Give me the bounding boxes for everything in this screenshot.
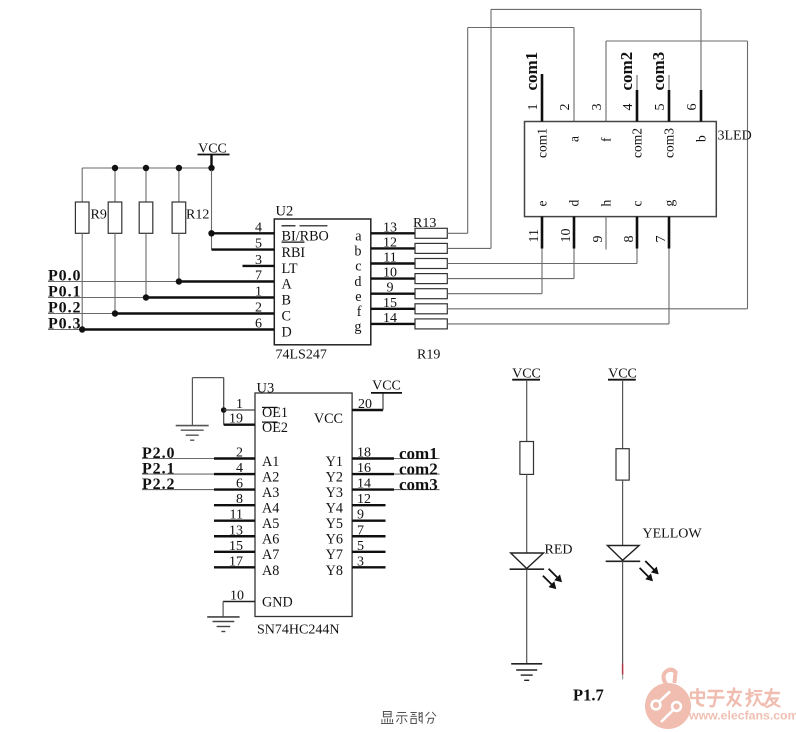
wire U3 pin 12 <box>352 504 385 506</box>
svg-text:B: B <box>282 293 291 309</box>
svg-text:17: 17 <box>229 554 243 569</box>
svg-text:6: 6 <box>236 477 243 492</box>
wire <box>447 232 467 234</box>
svg-text:P2.2: P2.2 <box>142 476 175 493</box>
wire U3 pin 11 <box>214 520 255 522</box>
wire U3 pin 4 <box>214 473 255 475</box>
wire U2 pin 12 <box>371 247 415 249</box>
wire <box>48 281 179 283</box>
wire <box>114 233 116 313</box>
svg-text:GND: GND <box>262 594 293 610</box>
wire <box>222 602 224 617</box>
wire U3 pin 8 <box>214 504 255 506</box>
wire U3 pin 17 <box>214 566 255 568</box>
svg-text:h: h <box>599 200 614 207</box>
svg-text:14: 14 <box>383 311 397 326</box>
resistor R18 <box>415 304 447 314</box>
wire <box>394 458 440 460</box>
watermark logo <box>645 670 691 729</box>
svg-text:g: g <box>354 319 361 335</box>
svg-text:10: 10 <box>559 229 574 243</box>
svg-text:g: g <box>662 200 677 207</box>
svg-text:9: 9 <box>387 281 394 296</box>
LED D1 arrows <box>543 569 562 589</box>
svg-text:com3: com3 <box>662 128 677 158</box>
wire <box>142 458 214 460</box>
svg-text:D: D <box>282 325 292 341</box>
svg-text:16: 16 <box>357 461 371 476</box>
svg-text:8: 8 <box>622 236 637 243</box>
svg-text:7: 7 <box>255 269 262 284</box>
wire 3LED bottom pin <box>541 217 544 249</box>
svg-text:com2: com2 <box>617 52 636 91</box>
wire <box>636 249 638 264</box>
svg-text:9: 9 <box>357 508 364 523</box>
overline RBI <box>282 241 305 243</box>
wire U2 pin 3 <box>243 265 275 267</box>
wire 3LED bottom pin <box>573 217 576 249</box>
LED D2 arrows <box>640 561 659 581</box>
resistor R11 <box>139 202 153 233</box>
ground (RED branch) <box>511 663 542 665</box>
wire U3 pin 9 <box>352 520 385 522</box>
wire U2 pin 10 <box>371 277 415 279</box>
node P0.0 junction <box>176 278 182 284</box>
svg-text:12: 12 <box>357 492 371 507</box>
svg-text:2: 2 <box>255 301 262 316</box>
wire 3LED pin 9 stub <box>605 217 607 250</box>
wire <box>447 278 574 280</box>
svg-text:b: b <box>694 135 709 142</box>
wire <box>178 233 180 281</box>
wire (red mark) <box>622 663 624 674</box>
wire 3LED bottom pin <box>668 217 671 249</box>
wire U3 pin 6 <box>214 488 255 490</box>
svg-text:3: 3 <box>255 253 262 268</box>
svg-text:7: 7 <box>654 236 669 243</box>
wire <box>491 8 701 10</box>
wire <box>468 27 574 29</box>
svg-text:1: 1 <box>236 397 243 412</box>
wire <box>573 249 575 279</box>
node rail junction VCC <box>208 165 214 171</box>
svg-text:c: c <box>355 259 361 275</box>
wire 3LED pin 6 <box>700 90 703 122</box>
wire U3 pin 18 <box>352 457 394 459</box>
svg-text:15: 15 <box>383 296 397 311</box>
node P0.1 junction <box>143 294 149 300</box>
wire <box>82 328 274 330</box>
svg-text:18: 18 <box>357 446 371 461</box>
svg-text:7: 7 <box>357 523 364 538</box>
svg-text:3: 3 <box>357 554 364 569</box>
svg-text:5: 5 <box>357 539 364 554</box>
svg-text:A: A <box>282 277 293 293</box>
svg-text:P2.1: P2.1 <box>142 461 175 478</box>
svg-text:14: 14 <box>357 477 371 492</box>
svg-text:11: 11 <box>527 229 542 242</box>
wire <box>81 168 83 202</box>
svg-text:R12: R12 <box>186 208 209 223</box>
wire U3 pin 14 <box>352 488 394 490</box>
svg-text:12: 12 <box>383 235 397 250</box>
wire <box>394 473 440 475</box>
node rail junction 2 <box>143 165 149 171</box>
wire U3 pin 16 <box>352 473 394 475</box>
wire U3 pin 10 <box>223 601 255 603</box>
resistor R12 <box>172 202 186 233</box>
watermark text 电子发烧友 <box>696 689 699 703</box>
resistor R19 <box>415 319 447 329</box>
wire <box>606 40 748 42</box>
wire <box>48 329 82 331</box>
wire <box>191 378 193 426</box>
wire U3 pin 5 <box>352 551 385 553</box>
resistor R16 <box>415 274 447 284</box>
LED D1 RED <box>511 553 544 569</box>
wire U3 pin 15 <box>214 551 255 553</box>
svg-text:d: d <box>354 274 361 290</box>
wire U3 pin 7 <box>352 535 385 537</box>
wire U3 pin 13 <box>214 535 255 537</box>
node P0.2 junction <box>112 310 118 316</box>
node rail junction 3 <box>176 165 182 171</box>
svg-text:b: b <box>354 244 361 260</box>
wire U3 pin 1 <box>224 409 255 411</box>
svg-text:19: 19 <box>229 412 243 427</box>
svg-text:1: 1 <box>255 285 262 300</box>
wire U2 pin 5 <box>212 248 275 250</box>
svg-text:Y4: Y4 <box>326 501 343 517</box>
wire U2 pin 14 <box>371 323 415 325</box>
wire <box>179 280 274 282</box>
wire <box>447 308 747 310</box>
resistor R21 <box>616 449 629 480</box>
svg-text:A4: A4 <box>262 501 279 517</box>
wire 3LED pin 5 <box>668 75 670 90</box>
svg-text:6: 6 <box>255 317 262 332</box>
wire <box>668 249 670 324</box>
node U3 pin1 junction <box>221 407 227 413</box>
svg-text:R13: R13 <box>413 216 436 231</box>
svg-text:RBI: RBI <box>282 245 306 261</box>
wire U3 pin 2 <box>214 457 255 459</box>
wire <box>115 312 274 314</box>
svg-text:C: C <box>282 309 291 325</box>
svg-text:13: 13 <box>383 220 397 235</box>
wire <box>145 233 147 297</box>
svg-text:A1: A1 <box>262 454 279 470</box>
wire <box>700 9 702 91</box>
wire <box>211 233 213 249</box>
wire <box>622 380 624 449</box>
display U4 3LED body <box>525 122 717 217</box>
resistor R14 <box>415 243 447 253</box>
wire <box>622 480 624 545</box>
wire <box>114 168 116 202</box>
svg-text:A6: A6 <box>262 532 279 548</box>
wire 3LED bottom pin <box>636 217 639 249</box>
svg-text:com2: com2 <box>630 128 645 158</box>
svg-text:www.elecfans.com: www.elecfans.com <box>688 709 796 723</box>
wire <box>81 233 83 329</box>
caption 显示部分 <box>381 712 394 724</box>
svg-text:f: f <box>599 137 614 142</box>
LED D2 YELLOW <box>607 546 639 561</box>
svg-text:A3: A3 <box>262 485 279 501</box>
svg-text:P1.7: P1.7 <box>573 686 604 705</box>
svg-text:6: 6 <box>685 104 700 111</box>
svg-text:4: 4 <box>621 104 636 111</box>
wire <box>467 28 469 234</box>
wire <box>747 41 749 309</box>
svg-text:11: 11 <box>230 508 243 523</box>
wire U2 pin 13 <box>371 232 415 234</box>
wire U2 pin 15 <box>371 308 415 310</box>
wire <box>526 380 528 442</box>
svg-text:13: 13 <box>229 523 243 538</box>
wire U3 pin 3 <box>352 566 385 568</box>
wire <box>447 323 669 325</box>
svg-text:20: 20 <box>358 397 372 412</box>
wire 3LED pin 4 <box>636 75 638 90</box>
svg-text:Y5: Y5 <box>326 516 343 532</box>
svg-text:U2: U2 <box>276 204 294 220</box>
svg-text:A2: A2 <box>262 469 279 485</box>
svg-text:5: 5 <box>653 104 668 111</box>
resistor R15 <box>415 259 447 269</box>
ground (U3 OE) <box>176 425 209 427</box>
wire <box>146 296 274 298</box>
svg-text:e: e <box>535 201 550 207</box>
ground (U3 GND) <box>207 616 239 618</box>
resistor R13 <box>415 228 447 238</box>
wire <box>223 378 225 425</box>
wire 3LED pin 1 <box>541 74 544 122</box>
svg-text:f: f <box>357 304 362 320</box>
wire U2 pin 11 <box>371 262 415 264</box>
svg-text:Y2: Y2 <box>326 469 343 485</box>
svg-text:5: 5 <box>255 237 262 252</box>
wire <box>447 247 491 249</box>
wire <box>622 675 624 680</box>
svg-text:d: d <box>567 200 582 207</box>
svg-text:15: 15 <box>229 539 243 554</box>
overline BI <box>282 225 296 227</box>
svg-text:SN74HC244N: SN74HC244N <box>257 623 339 638</box>
svg-text:Y7: Y7 <box>326 547 343 563</box>
svg-text:8: 8 <box>236 492 243 507</box>
overline RBO <box>300 225 328 227</box>
svg-text:2: 2 <box>558 104 573 111</box>
wire <box>142 489 214 491</box>
svg-text:Y1: Y1 <box>326 454 343 470</box>
wire <box>573 28 575 122</box>
svg-text:com1: com1 <box>535 128 550 158</box>
svg-text:com3: com3 <box>399 475 438 494</box>
resistor R20 <box>520 442 534 475</box>
wire <box>48 313 115 315</box>
svg-text:10: 10 <box>230 589 244 604</box>
svg-text:P2.0: P2.0 <box>142 445 175 462</box>
wire <box>622 561 624 663</box>
svg-text:YELLOW: YELLOW <box>643 527 703 542</box>
node rail junction 1 <box>112 165 118 171</box>
svg-text:a: a <box>567 136 582 142</box>
wire U3 pin 20 <box>352 409 383 411</box>
svg-text:com1: com1 <box>522 52 541 91</box>
svg-text:Y8: Y8 <box>326 563 343 579</box>
svg-text:VCC: VCC <box>372 379 401 394</box>
svg-text:A5: A5 <box>262 516 279 532</box>
wire <box>211 170 213 233</box>
overline OE1 <box>262 406 278 408</box>
wire <box>490 9 492 248</box>
wire <box>541 249 543 294</box>
svg-text:com3: com3 <box>649 52 668 91</box>
wire U3 pin 19 <box>224 424 255 426</box>
wire <box>142 473 214 475</box>
op-amp U2 74LS247 body <box>274 219 371 345</box>
svg-text:LT: LT <box>282 261 298 277</box>
svg-text:2: 2 <box>236 446 243 461</box>
svg-text:RED: RED <box>545 543 573 558</box>
wire <box>605 41 607 122</box>
wire U2 pin 4 <box>212 232 275 234</box>
resistor R17 <box>415 289 447 299</box>
wire <box>178 168 180 202</box>
svg-text:Y6: Y6 <box>326 532 343 548</box>
wire <box>382 393 384 410</box>
svg-text:VCC: VCC <box>314 411 343 427</box>
wire <box>48 297 146 299</box>
svg-text:4: 4 <box>236 461 243 476</box>
svg-text:A8: A8 <box>262 563 279 579</box>
wire <box>526 569 528 664</box>
wire <box>82 167 211 169</box>
svg-text:R19: R19 <box>417 348 440 363</box>
svg-text:R9: R9 <box>91 208 107 223</box>
resistor R9 <box>75 202 89 233</box>
resistor R10 <box>108 202 122 233</box>
svg-text:74LS247: 74LS247 <box>276 348 327 363</box>
svg-text:3: 3 <box>590 104 605 111</box>
node P0.3 junction <box>79 326 85 332</box>
svg-text:10: 10 <box>383 266 397 281</box>
svg-text:11: 11 <box>383 251 396 266</box>
svg-text:3LED: 3LED <box>718 129 752 144</box>
node U2 pin4 junction <box>208 230 214 236</box>
svg-text:1: 1 <box>526 104 541 111</box>
svg-text:A7: A7 <box>262 547 279 563</box>
svg-text:c: c <box>630 201 645 207</box>
svg-text:4: 4 <box>255 220 262 235</box>
wire U2 pin 9 <box>371 293 415 295</box>
wire <box>394 489 440 491</box>
svg-text:Y3: Y3 <box>326 485 343 501</box>
wire <box>145 168 147 202</box>
wire <box>526 474 528 553</box>
overline OE2 <box>262 421 278 423</box>
wire <box>192 377 223 379</box>
svg-text:U3: U3 <box>257 380 275 396</box>
svg-text:a: a <box>355 229 362 245</box>
IC U3 SN74HC244N body <box>255 393 352 617</box>
svg-text:e: e <box>355 289 361 305</box>
wire <box>447 263 637 265</box>
wire <box>447 293 542 295</box>
svg-text:9: 9 <box>591 236 606 243</box>
